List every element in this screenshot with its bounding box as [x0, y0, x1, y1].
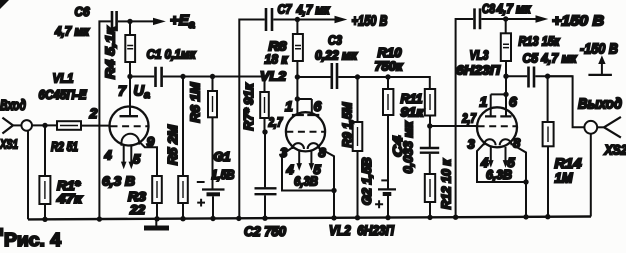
supply arrow +150В stage3 [506, 15, 549, 22]
node input junction [42, 123, 47, 128]
svg-text:8: 8 [513, 136, 521, 151]
svg-text:R4 5,1к: R4 5,1к [103, 25, 118, 79]
svg-text:VL2: VL2 [260, 69, 287, 84]
svg-text:6,3В: 6,3В [486, 167, 512, 182]
heater pins 4,5 VL1 [121, 145, 134, 170]
capacitor C3 [297, 63, 429, 89]
svg-text:Ua: Ua [134, 84, 150, 102]
resistor R2 [57, 121, 81, 130]
svg-text:R5 2М: R5 2М [166, 124, 180, 165]
svg-text:22: 22 [129, 203, 145, 217]
tube VL3 [477, 94, 526, 217]
svg-text:Рис. 4: Рис. 4 [4, 230, 61, 250]
svg-text:XS1: XS1 [0, 137, 18, 152]
capacitor C2 [255, 132, 277, 219]
svg-text:1: 1 [480, 94, 488, 110]
svg-text:1М: 1М [555, 171, 574, 186]
svg-text:4,7 мк: 4,7 мк [496, 2, 532, 16]
wire cathode VL1 to R3 [139, 142, 157, 177]
scan artifact left edge [0, 228, 4, 237]
resistor R14 [543, 76, 554, 217]
svg-text:R2 51: R2 51 [51, 140, 78, 154]
output jack XS2 [584, 117, 621, 138]
svg-text:+150 В: +150 В [352, 14, 388, 30]
heater pins 4,5 VL2 [296, 150, 314, 171]
resistor R9 [353, 77, 363, 218]
svg-text:R13 15к: R13 15к [519, 34, 561, 49]
svg-text:6Н23П: 6Н23П [456, 63, 501, 78]
ground symbol [144, 219, 169, 228]
svg-text:R11: R11 [401, 92, 423, 106]
anode VL1 [129, 77, 131, 117]
svg-text:6С45П-Е: 6С45П-Е [39, 87, 87, 102]
resistor R13 [501, 19, 511, 94]
svg-text:3: 3 [280, 145, 288, 160]
resistor R10 [383, 77, 393, 189]
resistor R6 [208, 77, 217, 190]
heater pins 4,5 VL3 [488, 147, 508, 168]
resistor R1 [39, 176, 50, 204]
svg-text:3: 3 [468, 137, 476, 152]
wire input ground drop [27, 131, 29, 220]
svg-text:R10: R10 [378, 46, 402, 60]
resistor R12 [425, 174, 435, 218]
cathode VL1 [122, 134, 140, 146]
svg-text:С3: С3 [328, 34, 342, 48]
svg-text:С7: С7 [278, 2, 293, 16]
battery G1 [202, 190, 225, 220]
svg-text:6,3В: 6,3В [294, 174, 318, 189]
capacitor C8 [456, 8, 506, 217]
wire coupling node line stage1-2 [163, 77, 265, 93]
resistor R3 [152, 176, 162, 203]
svg-text:VL3: VL3 [470, 48, 490, 63]
svg-text:9: 9 [147, 134, 155, 150]
resistor R5 [178, 77, 188, 220]
svg-text:5: 5 [133, 152, 141, 167]
tube VL1 [110, 77, 158, 177]
capacitor C6 [99, 11, 130, 219]
svg-text:7: 7 [118, 83, 127, 99]
svg-text:-150 В: -150 В [580, 42, 618, 58]
wire input to node [32, 124, 57, 126]
svg-text:4,7 мк: 4,7 мк [296, 3, 331, 17]
capacitor C7 [239, 8, 297, 219]
svg-text:R12 10 к: R12 10 к [440, 159, 454, 210]
wire R2 to grid VL1 [81, 125, 110, 127]
svg-text:2,7: 2,7 [268, 115, 283, 130]
svg-text:750к: 750к [375, 60, 404, 74]
svg-text:6: 6 [314, 98, 322, 114]
supply arrow +Ea [130, 18, 166, 25]
svg-text:1: 1 [285, 98, 293, 114]
capacitor C4 [420, 126, 439, 174]
svg-text:VL1: VL1 [53, 71, 74, 86]
grid VL2 [286, 131, 324, 133]
svg-text:XS2: XS2 [604, 143, 626, 158]
svg-text:VL2 6Н23П: VL2 6Н23П [329, 223, 394, 238]
grid VL1 [111, 125, 148, 127]
svg-text:R8: R8 [269, 40, 287, 54]
svg-text:С1 0,1мк: С1 0,1мк [147, 47, 197, 62]
tube VL2 [282, 77, 334, 218]
capacitor C1 [130, 67, 162, 87]
svg-text:1,5В: 1,5В [212, 168, 235, 182]
svg-text:2: 2 [89, 105, 98, 121]
anode VL2 pins 1,6 [296, 77, 298, 99]
svg-text:4,7 мк: 4,7 мк [54, 25, 90, 39]
svg-text:R9 1,5М: R9 1,5М [340, 102, 354, 148]
svg-text:R1*: R1* [57, 179, 81, 193]
wire cathode pins 3,8 VL3 [477, 144, 526, 183]
supply arrow +150В stage2 [297, 16, 347, 23]
svg-text:Вход: Вход [0, 97, 26, 114]
wire output ground drop [590, 134, 592, 217]
capacitor C5 [506, 67, 573, 88]
svg-text:6: 6 [509, 94, 517, 110]
svg-text:+Ea: +Ea [170, 12, 195, 31]
svg-text:0,033 мк: 0,033 мк [401, 121, 415, 174]
svg-text:С5 4,7 мк: С5 4,7 мк [523, 51, 578, 66]
scan artifact top-left corner [0, 0, 9, 9]
ground bus wire [28, 217, 591, 220]
svg-text:8: 8 [319, 145, 327, 160]
wire R1 bottom [44, 204, 46, 219]
svg-text:6,3 В: 6,3 В [102, 174, 135, 189]
wire grid VL3 [430, 125, 478, 127]
wire R1 top [44, 125, 46, 176]
svg-text:+150 В: +150 В [552, 14, 604, 30]
resistor R4 [125, 21, 135, 76]
resistor R11 [425, 89, 435, 126]
resistor R7 [260, 92, 269, 132]
svg-text:С6: С6 [75, 5, 91, 19]
anode VL3 pins 1,6 [491, 94, 506, 116]
svg-text:4: 4 [104, 148, 113, 163]
grid VL3 [478, 125, 517, 127]
input jack XS1 [2, 118, 32, 134]
svg-text:0,22 мк: 0,22 мк [315, 48, 358, 62]
svg-text:18 к: 18 к [265, 53, 289, 67]
svg-text:Выход: Выход [578, 96, 622, 113]
svg-text:2,7: 2,7 [461, 111, 476, 126]
wire output [548, 76, 585, 127]
svg-text:G1: G1 [214, 150, 231, 164]
svg-text:G2 1,5В: G2 1,5В [360, 157, 374, 205]
svg-text:R14: R14 [555, 156, 583, 171]
svg-text:С2 750: С2 750 [244, 224, 286, 239]
svg-text:47к: 47к [56, 192, 83, 206]
svg-text:С8: С8 [482, 2, 495, 16]
resistor R8 [293, 20, 303, 78]
cathode VL2 [292, 143, 304, 149]
cathode VL3 [484, 139, 496, 145]
svg-text:R3: R3 [128, 190, 146, 204]
svg-text:R7* 91к: R7* 91к [242, 83, 256, 131]
wire cathode pins 3,8 VL2 [282, 147, 334, 190]
svg-text:R6 1М: R6 1М [188, 82, 202, 123]
svg-text:91к: 91к [401, 106, 425, 120]
battery G2 [378, 189, 396, 218]
